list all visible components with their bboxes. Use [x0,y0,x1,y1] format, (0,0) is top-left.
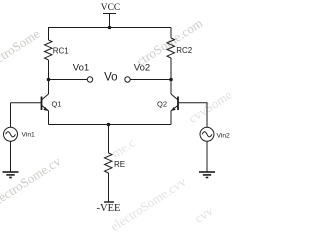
svg-text:RC2: RC2 [176,46,193,55]
watermark texts [0,26,43,75]
svg-text:RE: RE [114,160,125,169]
transistor Q2 [171,80,178,125]
ground right [199,172,215,178]
source Vin2 [200,127,214,141]
wire Vin1 lower lead [10,141,12,172]
node VCC junction [108,26,112,30]
wire Vin1 upper lead [10,103,12,128]
resistor RC2 [167,38,175,58]
wire RC2 to node Vo2 [170,58,172,80]
wire RE upper lead [108,125,110,154]
wire Q2 base [178,103,207,128]
svg-text:Vo: Vo [104,72,117,84]
wire left emitter rail [49,124,172,126]
svg-text:Vo2: Vo2 [134,63,150,74]
svg-text:-VEE: -VEE [97,203,121,213]
terminal Vo2 [125,77,130,82]
wire Vo1 stub [49,79,88,81]
wire right branch upper [170,28,172,39]
svg-text:RC1: RC1 [53,47,70,56]
ground left [3,172,19,178]
wire Vin2 lower lead [206,141,208,172]
wire top rail [48,27,171,29]
svg-text:Vin2: Vin2 [217,132,231,139]
resistor RE [105,153,113,173]
wire RE lower lead [108,173,110,202]
svg-text:Q1: Q1 [52,99,62,108]
node Vo1 junction [47,78,51,82]
-VEE power symbol [104,201,114,203]
wire Vo2 stub [130,79,171,81]
wire left branch upper [48,28,50,41]
svg-text:Q2: Q2 [157,99,167,108]
VCC power symbol [103,14,116,28]
transistor Q1 [42,80,49,125]
wire Q1 base [11,102,42,104]
wire RC1 to node Vo1 [48,60,50,80]
svg-text:VCC: VCC [101,3,121,13]
node Vo2 junction [169,78,173,82]
terminal Vo1 [87,77,92,82]
resistor RC1 [45,40,53,60]
node emitter junction [107,123,111,127]
svg-text:Vin1: Vin1 [22,131,36,138]
svg-text:Vo1: Vo1 [73,63,89,74]
source Vin1 [4,127,18,141]
